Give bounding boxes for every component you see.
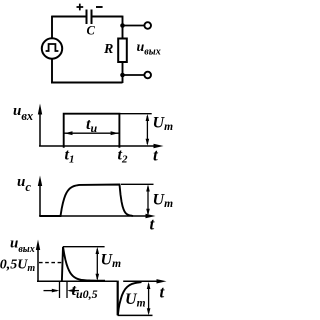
axis t3 horizontal [37, 280, 160, 282]
extension line U_m negative [118, 314, 153, 316]
input pulse [64, 114, 120, 148]
extension line U_m wf2 [121, 183, 154, 185]
terminal output top [144, 22, 151, 29]
resistor R1 [118, 39, 127, 63]
axis t2 horizontal [39, 215, 149, 217]
capacitor C1 plate left [86, 10, 88, 25]
junction node A [120, 23, 125, 28]
extension line U_m wf1 [120, 113, 152, 115]
dimension arrow t_i0.5 right [70, 290, 80, 292]
wire node A to terminal [123, 25, 145, 27]
axis u_c vertical [39, 182, 41, 217]
capacitor voltage curve [40, 185, 133, 217]
tick t_i0.5 right [66, 282, 68, 299]
pulse generator G1 [42, 38, 62, 58]
minus polarity mark [96, 6, 103, 8]
svg-text:R: R [103, 42, 113, 57]
output negative spike drop [117, 281, 119, 316]
axis t1 horizontal [39, 145, 157, 147]
axis u_vx vertical [39, 110, 41, 147]
output positive spike [62, 247, 105, 281]
dimension arrow U_m positive [96, 249, 98, 279]
extension line U_m positive [63, 246, 105, 248]
wire top-left (source to capacitor) [52, 16, 86, 18]
dimension line t_i [65, 132, 119, 134]
capacitor C1 plate right [91, 10, 93, 25]
wire bottom [51, 82, 123, 84]
pulse symbol inside G1 [46, 44, 59, 51]
svg-text:C: C [87, 24, 96, 38]
plus polarity mark [77, 4, 84, 11]
wire top-right (capacitor to node A) [92, 16, 122, 18]
wire right vertical (node A to resistor) [122, 16, 124, 39]
dimension arrow U_m wf2 [147, 187, 149, 215]
wire node B to terminal [123, 74, 145, 76]
axis u_vyh vertical [37, 246, 39, 282]
output negative spike recovery [118, 282, 142, 315]
tick t_i0.5 left [59, 282, 61, 299]
dashed half-level line [39, 262, 62, 264]
dimension arrow t_i0.5 left [44, 290, 58, 292]
wire left vertical upper [51, 16, 53, 38]
wire left vertical lower [51, 59, 53, 83]
terminal output bottom [144, 72, 151, 79]
dimension arrow U_m wf1 [146, 116, 148, 144]
junction node B [120, 73, 125, 78]
wire resistor to node B [122, 62, 124, 83]
dimension arrow U_m negative [148, 284, 150, 313]
